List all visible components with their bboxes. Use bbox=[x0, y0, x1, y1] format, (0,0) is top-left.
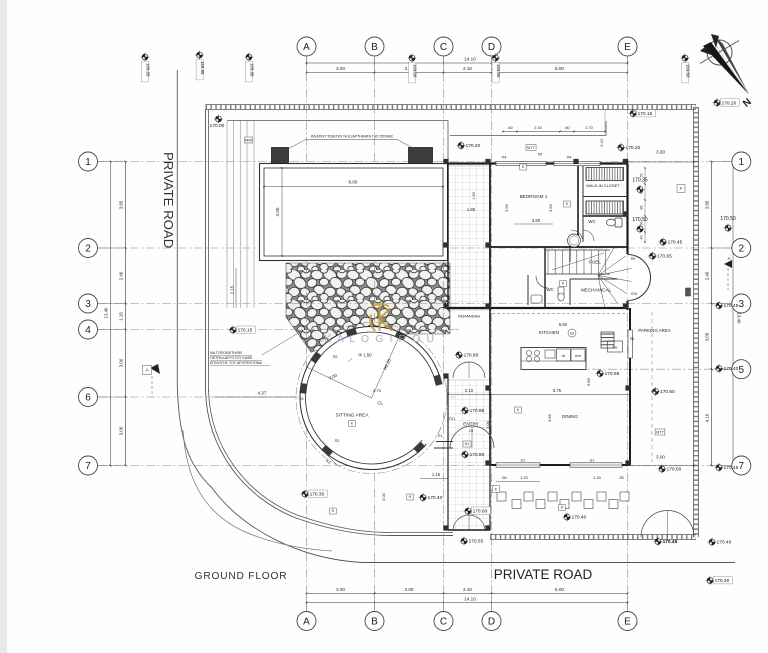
pool deck plank lines bbox=[226, 121, 228, 308]
svg-text:3.00: 3.00 bbox=[336, 587, 345, 592]
svg-text:170.95: 170.95 bbox=[605, 371, 620, 377]
svg-text:1.50: 1.50 bbox=[472, 192, 476, 199]
svg-text:170.20: 170.20 bbox=[626, 145, 641, 151]
pool column right bbox=[409, 148, 433, 164]
svg-text:Π9: Π9 bbox=[631, 257, 636, 261]
svg-text:170.45: 170.45 bbox=[668, 240, 683, 246]
svg-text:Θ: Θ bbox=[409, 495, 412, 499]
grid bubble B bottom bbox=[365, 612, 384, 631]
svg-text:169.06: 169.06 bbox=[496, 64, 501, 78]
grid bubble 1 right bbox=[732, 152, 751, 171]
grid bubble 7 left bbox=[79, 456, 98, 475]
grid bubble C top bbox=[434, 37, 453, 56]
svg-text:ΕΠΙΛΟΓΗΣ ΤΟΥ ΑΡΧΙΤΕΚΤΟΝΑ: ΕΠΙΛΟΓΗΣ ΤΟΥ ΑΡΧΙΤΕΚΤΟΝΑ bbox=[210, 361, 262, 365]
plot boundary right band bbox=[694, 107, 698, 537]
svg-text:169.50: 169.50 bbox=[686, 64, 691, 78]
sitting area ring inner wall bbox=[306, 332, 438, 464]
bedroom north window 2 bbox=[554, 161, 600, 165]
svg-text:170.45: 170.45 bbox=[724, 465, 739, 471]
sitting area setting-out circle (dash-dot) bbox=[296, 323, 447, 474]
svg-text:170.15: 170.15 bbox=[238, 328, 253, 334]
svg-text:Π11: Π11 bbox=[449, 417, 455, 421]
grid line column C bbox=[443, 57, 445, 611]
.63 diagonal dim bbox=[322, 450, 338, 466]
closet west wall bbox=[582, 164, 584, 243]
stair flight diagonal bbox=[552, 253, 604, 270]
svg-text:14.10: 14.10 bbox=[464, 57, 476, 62]
svg-text:169.06: 169.06 bbox=[413, 64, 418, 78]
parking dim line bottom bbox=[628, 465, 695, 467]
wc2 toilet bbox=[558, 287, 564, 295]
svg-text:Π6: Π6 bbox=[630, 337, 635, 341]
stepping stone dims bbox=[496, 481, 540, 483]
spot 170.65 east bbox=[648, 252, 672, 261]
plot boundary top band bbox=[206, 105, 697, 109]
bedroom dim 3.80 bbox=[514, 223, 553, 225]
svg-text:170.60: 170.60 bbox=[660, 389, 675, 395]
grid bubble 7 right bbox=[732, 456, 751, 475]
kitchen east window bbox=[628, 330, 632, 358]
spot 170.90 entry bbox=[461, 450, 485, 459]
svg-text:2.10: 2.10 bbox=[465, 388, 474, 393]
radial dimension R2.25 bbox=[372, 336, 400, 398]
svg-text:2.10: 2.10 bbox=[463, 587, 472, 592]
svg-text:2: 2 bbox=[739, 244, 745, 255]
svg-text:Π7: Π7 bbox=[590, 459, 595, 463]
svg-text:1: 1 bbox=[85, 157, 91, 168]
svg-text:3.80: 3.80 bbox=[532, 218, 541, 223]
sitting area interior fill bbox=[300, 327, 443, 470]
svg-text:SITTING AREA: SITTING AREA bbox=[335, 413, 369, 419]
spot 170.60 court low bbox=[464, 507, 491, 516]
ring columns bbox=[310, 352, 321, 364]
svg-text:PARKING AREA: PARKING AREA bbox=[638, 328, 670, 333]
svg-text:D: D bbox=[488, 42, 495, 53]
svg-text:2.40: 2.40 bbox=[705, 271, 710, 280]
svg-text:168.85: 168.85 bbox=[146, 63, 151, 77]
svg-text:3.05: 3.05 bbox=[705, 332, 710, 341]
pool dimension 4.00 line bbox=[281, 168, 283, 256]
entry west wall upper bbox=[447, 378, 449, 530]
svg-text:P: P bbox=[680, 186, 683, 191]
svg-text:170.65: 170.65 bbox=[657, 254, 672, 260]
grid bubble D bottom bbox=[482, 612, 501, 631]
kitchen-dining east wall bbox=[629, 308, 631, 465]
svg-text:K A L O G I R O U: K A L O G I R O U bbox=[324, 333, 435, 345]
svg-text:WALK-IN CLOSET: WALK-IN CLOSET bbox=[586, 183, 620, 188]
svg-text:3.00: 3.00 bbox=[485, 420, 490, 429]
svg-text:170.20: 170.20 bbox=[722, 101, 737, 107]
fuel divider bbox=[569, 247, 571, 262]
grid bubble 1 left bbox=[79, 152, 98, 171]
svg-text:13.40: 13.40 bbox=[737, 313, 742, 325]
svg-text:MW: MW bbox=[245, 137, 252, 142]
svg-text:3.85: 3.85 bbox=[705, 200, 710, 209]
svg-text:E: E bbox=[624, 617, 631, 628]
dining south window 1 bbox=[496, 463, 540, 467]
wall columns bbox=[443, 159, 448, 164]
svg-text:KITCHEN: KITCHEN bbox=[539, 330, 559, 335]
svg-text:E: E bbox=[624, 42, 631, 53]
svg-text:ENTRY: ENTRY bbox=[463, 422, 479, 427]
svg-text:FUEL: FUEL bbox=[589, 260, 601, 265]
left total dimension 13.40 bbox=[110, 162, 112, 466]
svg-text:2.10: 2.10 bbox=[463, 66, 472, 71]
spot 170.40 bottom right bbox=[708, 538, 732, 547]
entry bottom block walls bbox=[448, 529, 490, 531]
grid bubble A bottom bbox=[297, 612, 316, 631]
spot 170.40 stones bbox=[563, 513, 587, 522]
svg-text:B: B bbox=[371, 42, 378, 53]
svg-text:wm: wm bbox=[575, 354, 581, 358]
svg-text:6.80: 6.80 bbox=[586, 377, 591, 386]
spot level vertical C bbox=[408, 54, 418, 83]
spot 170.55 bottom bbox=[460, 537, 484, 546]
svg-text:170.15: 170.15 bbox=[638, 111, 653, 117]
grid bubble 5 right bbox=[732, 360, 751, 379]
court door arch south bbox=[453, 515, 469, 531]
svg-text:2.40: 2.40 bbox=[119, 271, 124, 280]
plot boundary left line bbox=[205, 109, 207, 392]
pool column left bbox=[272, 148, 289, 164]
svg-text:CL: CL bbox=[377, 401, 383, 406]
court double door arch north bbox=[453, 362, 469, 378]
grid bubble 3 right bbox=[732, 294, 751, 313]
dining south wall bbox=[490, 464, 630, 466]
svg-text:170.95: 170.95 bbox=[470, 408, 485, 414]
svg-text:1.15: 1.15 bbox=[432, 472, 441, 477]
svg-text:2.15: 2.15 bbox=[230, 285, 235, 294]
grid bubble 3 left bbox=[79, 294, 98, 313]
left area dim 4.37 bbox=[215, 396, 296, 398]
spot 170.30 bottom right boxed bbox=[706, 576, 733, 585]
right dimension line bbox=[711, 162, 713, 466]
kitchen sink bbox=[545, 350, 555, 358]
svg-text:Π10: Π10 bbox=[631, 292, 638, 296]
section marker A left bbox=[150, 364, 160, 374]
north arrow compass bbox=[700, 34, 754, 110]
grid line column A bbox=[306, 57, 308, 611]
grid line column D bbox=[491, 57, 493, 611]
spot 170.50 parking low bbox=[658, 465, 682, 474]
svg-text:2.40: 2.40 bbox=[599, 138, 604, 146]
svg-text:PRIVATE ROAD: PRIVATE ROAD bbox=[161, 152, 176, 248]
closet hanger rail 1 bbox=[586, 168, 624, 181]
svg-text:3: 3 bbox=[739, 299, 745, 310]
svg-text:PRIVATE ROAD: PRIVATE ROAD bbox=[494, 567, 593, 582]
svg-text:3.50: 3.50 bbox=[548, 203, 553, 212]
svg-text:170.30: 170.30 bbox=[310, 492, 325, 498]
west verandah wall bbox=[447, 164, 449, 311]
svg-text:168.95: 168.95 bbox=[200, 61, 205, 75]
svg-text:170.20: 170.20 bbox=[466, 143, 481, 149]
svg-text:4: 4 bbox=[85, 325, 91, 336]
spot 170.45 east bbox=[659, 238, 683, 247]
plot boundary bottom band bbox=[490, 535, 696, 539]
svg-text:DINING: DINING bbox=[562, 414, 579, 419]
grid bubble E top bbox=[618, 37, 637, 56]
grid bubble D top bbox=[482, 37, 501, 56]
dw appliance bbox=[608, 341, 623, 352]
svg-text:1.85: 1.85 bbox=[467, 207, 476, 212]
svg-text:13.40: 13.40 bbox=[104, 307, 109, 319]
deck dimension 2.15 bbox=[235, 268, 237, 308]
kitchen dashed upper cabinets bbox=[492, 313, 627, 315]
parking inner dim chain bbox=[644, 168, 646, 242]
svg-text:170.45: 170.45 bbox=[724, 303, 739, 309]
spot 170.20 upper mid bbox=[457, 141, 481, 150]
spot 170.95 kitchen bbox=[596, 369, 620, 378]
svg-text:170.35: 170.35 bbox=[632, 178, 648, 184]
right col spot 170.40 row5 bbox=[715, 364, 739, 373]
spot level 168.95 road bbox=[195, 51, 205, 80]
plot boundary bottom-left curve bbox=[206, 390, 454, 536]
east wall north wing bbox=[626, 164, 628, 255]
spot level 168.85 road bbox=[141, 53, 151, 82]
pool dimension 8.00 line bbox=[264, 186, 443, 188]
svg-text:170.90: 170.90 bbox=[470, 452, 485, 458]
grid line row 1 bbox=[98, 161, 734, 163]
svg-text:.35: .35 bbox=[618, 475, 623, 480]
svg-text:3.00: 3.00 bbox=[119, 358, 124, 367]
grid line row 6 bbox=[98, 396, 455, 398]
bedroom south wall bbox=[490, 246, 628, 248]
svg-text:7: 7 bbox=[85, 461, 91, 472]
svg-text:.60: .60 bbox=[507, 125, 513, 130]
svg-text:Π5: Π5 bbox=[538, 153, 542, 157]
parking gate double arch bbox=[641, 511, 668, 538]
grid line row 5 bbox=[560, 368, 734, 370]
svg-text:ΝΑ ΤΟΠΟΘΕΤΗΘΕΙ: ΝΑ ΤΟΠΟΘΕΤΗΘΕΙ bbox=[210, 351, 242, 355]
svg-text:MTT: MTT bbox=[656, 430, 664, 434]
grid line row 3 bbox=[98, 303, 734, 305]
svg-text:.01: .01 bbox=[469, 429, 474, 433]
main stair straight treads bbox=[547, 250, 549, 274]
grid line column E bbox=[627, 57, 629, 611]
grid line row 4 bbox=[98, 329, 460, 331]
dining west wall bbox=[489, 390, 491, 465]
pool note leader lines bbox=[282, 140, 305, 152]
svg-text:3.00: 3.00 bbox=[656, 455, 665, 460]
svg-text:.60: .60 bbox=[501, 475, 507, 480]
walkway to entry bbox=[436, 441, 453, 443]
entry court tiles bbox=[448, 380, 490, 530]
verandah tile strip north bbox=[448, 166, 490, 310]
grid bubble C bottom bbox=[434, 612, 453, 631]
spot level 170.00 bbox=[210, 115, 225, 129]
kitchen wm appliance bbox=[571, 349, 585, 361]
svg-text:Π2: Π2 bbox=[335, 439, 340, 443]
svg-text:2: 2 bbox=[85, 244, 91, 255]
svg-text:3.50: 3.50 bbox=[504, 203, 509, 212]
svg-text:Π4: Π4 bbox=[567, 156, 572, 160]
svg-text:3.00: 3.00 bbox=[381, 492, 386, 501]
bedroom north yard dim chain bbox=[503, 131, 605, 133]
svg-text:VERANDAH: VERANDAH bbox=[458, 314, 480, 319]
svg-text:Θ: Θ bbox=[332, 509, 335, 513]
wc1 sink round bbox=[568, 234, 581, 247]
closet divider walls bbox=[583, 196, 628, 198]
watermark monogram bbox=[370, 304, 391, 330]
entry dims bbox=[420, 478, 448, 480]
spot 170.45 gate bold bbox=[654, 537, 678, 546]
svg-text:.25: .25 bbox=[299, 397, 304, 401]
spot 170.50 wc bbox=[632, 217, 648, 233]
svg-text:3: 3 bbox=[85, 299, 91, 310]
section marker A right bbox=[724, 260, 732, 268]
svg-text:4.00: 4.00 bbox=[275, 207, 280, 216]
mechanical room walls bbox=[570, 278, 618, 280]
spot 170.15 row4 bbox=[229, 326, 256, 335]
svg-text:GROUND FLOOR: GROUND FLOOR bbox=[195, 571, 288, 582]
bedroom north window 1 bbox=[496, 161, 546, 165]
svg-text:1: 1 bbox=[739, 157, 745, 168]
svg-text:A: A bbox=[303, 42, 310, 53]
svg-text:3.85: 3.85 bbox=[119, 200, 124, 209]
svg-text:Π1: Π1 bbox=[438, 434, 443, 438]
svg-text:6: 6 bbox=[85, 393, 91, 404]
svg-text:3.85: 3.85 bbox=[547, 413, 552, 422]
grid line row 2 bbox=[98, 247, 734, 249]
grid bubble B top bbox=[365, 37, 384, 56]
grid bubble A top bbox=[297, 37, 316, 56]
svg-text:170.55: 170.55 bbox=[469, 539, 484, 545]
svg-text:MTT: MTT bbox=[527, 146, 535, 150]
inner yard fence vertical at pool right bbox=[447, 121, 449, 164]
north wing south wall bbox=[448, 307, 628, 309]
side yard fence line north of bedroom bbox=[450, 135, 606, 137]
svg-text:5: 5 bbox=[739, 365, 745, 376]
svg-text:.40: .40 bbox=[640, 236, 644, 241]
top total dimension 14.10 bbox=[307, 62, 628, 64]
svg-text:6.00: 6.00 bbox=[555, 587, 564, 592]
left page edge shading bbox=[0, 0, 7, 653]
bedroom door arc bbox=[571, 230, 583, 242]
svg-text:1.70: 1.70 bbox=[585, 125, 593, 130]
spot 170.35 closet bbox=[632, 178, 648, 194]
svg-text:170.50: 170.50 bbox=[667, 467, 682, 473]
radial dimension 3.00 bbox=[307, 367, 372, 398]
right col spot 170.50 bbox=[720, 216, 736, 232]
left road edge line bbox=[176, 70, 178, 387]
svg-text:C: C bbox=[440, 617, 447, 628]
parking dim line top bbox=[628, 161, 695, 163]
svg-text:168.95: 168.95 bbox=[250, 63, 255, 77]
svg-text:7: 7 bbox=[739, 461, 745, 472]
svg-text:8.00: 8.00 bbox=[349, 180, 358, 185]
svg-text:2.10: 2.10 bbox=[534, 125, 542, 130]
spot level vertical D bbox=[491, 54, 501, 83]
parking curb mark bbox=[686, 288, 691, 296]
svg-text:1.20: 1.20 bbox=[593, 475, 601, 480]
spot level 169.50 top right bbox=[681, 54, 691, 83]
svg-text:5.50: 5.50 bbox=[559, 322, 568, 327]
parking lane dashed line bbox=[651, 312, 653, 462]
svg-text:170.40: 170.40 bbox=[717, 540, 732, 546]
svg-text:170.45: 170.45 bbox=[663, 539, 678, 545]
svg-text:C: C bbox=[440, 42, 447, 53]
svg-text:Φ 1.50: Φ 1.50 bbox=[358, 353, 372, 358]
svg-text:170.50: 170.50 bbox=[632, 217, 648, 223]
svg-text:6.00: 6.00 bbox=[555, 66, 564, 71]
svg-text:3.00: 3.00 bbox=[656, 150, 665, 155]
top dimension line bbox=[307, 72, 628, 74]
dining south window 2 bbox=[570, 463, 622, 467]
stair winder fan bbox=[598, 246, 615, 275]
svg-text:A: A bbox=[303, 617, 310, 628]
svg-text:3.00: 3.00 bbox=[405, 587, 414, 592]
svg-text:170.50: 170.50 bbox=[720, 216, 736, 222]
grid bubble 6 left bbox=[79, 388, 98, 407]
bedroom west wall bbox=[489, 164, 491, 311]
kitchen west wall bbox=[489, 308, 491, 390]
spot 170.15 top bbox=[629, 109, 656, 118]
sitting area ring outer wall bbox=[300, 327, 443, 470]
wc door arc bbox=[583, 230, 594, 241]
bottom dimension line bbox=[307, 593, 628, 595]
svg-text:Θ1: Θ1 bbox=[465, 442, 470, 446]
spot 170.80 court bbox=[455, 351, 479, 360]
svg-text:.80: .80 bbox=[640, 206, 644, 211]
spot 170.20 upper right bbox=[617, 143, 641, 152]
closet hanger rail 2 bbox=[586, 201, 624, 214]
kitchen counter bbox=[521, 348, 586, 370]
wc2 sink bbox=[531, 295, 542, 303]
svg-text:MECHANICAL: MECHANICAL bbox=[581, 288, 612, 293]
right col spot 170.45 row3 bbox=[715, 301, 739, 310]
right total dimension 13.40 bbox=[732, 162, 734, 466]
svg-text:WC: WC bbox=[588, 219, 595, 224]
svg-text:D: D bbox=[488, 617, 495, 628]
svg-text:4.10: 4.10 bbox=[705, 413, 710, 422]
svg-text:Π2: Π2 bbox=[333, 355, 338, 359]
pebble paving area bbox=[286, 263, 450, 352]
spot 170.60 parking bbox=[651, 387, 675, 396]
svg-text:ΘΑ ΕΠΙΧΥΤΩΘΟΥΝ ΤΑ ΕΞΑΡΤΗΜΑΤΑ Τ: ΘΑ ΕΠΙΧΥΤΩΘΟΥΝ ΤΑ ΕΞΑΡΤΗΜΑΤΑ ΤΗΣ ΠΙΣΙΝΑΣ bbox=[311, 135, 394, 139]
svg-text:B: B bbox=[371, 617, 378, 628]
svg-text:170.80: 170.80 bbox=[464, 353, 479, 359]
svg-text:170.30: 170.30 bbox=[715, 578, 730, 584]
watermark text bbox=[324, 333, 435, 345]
left dimension line bbox=[125, 162, 127, 466]
outer intersection curb curve bbox=[183, 430, 332, 551]
grid bubble E bottom bbox=[618, 612, 637, 631]
stepping stones bbox=[497, 492, 506, 501]
kitchen stove burners bbox=[526, 350, 531, 355]
svg-text:Π4: Π4 bbox=[502, 156, 507, 160]
bottom total dimension 14.10 bbox=[307, 602, 628, 604]
svg-text:170.00: 170.00 bbox=[210, 123, 225, 129]
svg-text:5.75: 5.75 bbox=[553, 388, 562, 393]
left road curved edge bbox=[177, 387, 735, 563]
stair hall west wall bbox=[544, 247, 546, 308]
swimming pool outer edge bbox=[260, 164, 448, 261]
svg-text:170.40: 170.40 bbox=[724, 366, 739, 372]
svg-text:3.00: 3.00 bbox=[336, 66, 345, 71]
svg-text:Π7: Π7 bbox=[521, 459, 526, 463]
grid line row 7 bbox=[98, 465, 734, 467]
entry east wall bbox=[489, 308, 491, 530]
dims row at y394 bbox=[448, 394, 630, 396]
spot level 168.95b road bbox=[245, 53, 255, 82]
svg-text:4.37: 4.37 bbox=[258, 391, 267, 396]
svg-text:170.40: 170.40 bbox=[572, 515, 587, 521]
spot 170.40 court bbox=[419, 493, 443, 502]
kitchen dr appliance bbox=[557, 349, 571, 361]
right col spot 170.45 row7 bbox=[715, 463, 739, 472]
svg-text:BEDROOM 1: BEDROOM 1 bbox=[520, 194, 548, 199]
main north wall bbox=[448, 162, 628, 164]
